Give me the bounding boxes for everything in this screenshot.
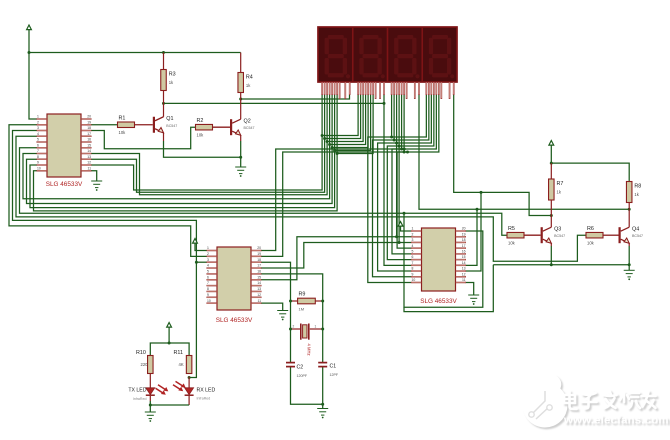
wire: Q1 emitter down — [163, 133, 165, 141]
junction R4 bottom — [239, 98, 242, 101]
wire: IC3 pin11 to ground — [466, 282, 474, 295]
junction R7 bottom / Q3 collector — [550, 214, 553, 217]
svg-text:10k: 10k — [197, 132, 205, 137]
junction Q3 emitter rail — [550, 263, 553, 266]
wire: +V to R7 R8 tops — [551, 145, 629, 181]
resistor R3 — [161, 70, 167, 91]
svg-text:12: 12 — [257, 293, 261, 297]
power arrow +V (top left) — [27, 25, 32, 30]
wire: R4 top lead — [240, 53, 242, 73]
capacitor C1 — [318, 363, 327, 367]
svg-text:5: 5 — [412, 249, 414, 253]
svg-text:SLG 46533V: SLG 46533V — [216, 317, 253, 324]
ground LEDs — [145, 412, 156, 419]
wire: IC1 pin19 to R1 — [92, 124, 118, 126]
display pins — [322, 82, 454, 99]
svg-text:8: 8 — [207, 287, 209, 291]
wire: LED supply rail — [150, 343, 189, 356]
svg-text:R10: R10 — [136, 350, 146, 356]
wire: segment net b digit 4 — [394, 95, 429, 140]
wire: IC2 pin20 to net e (bus) — [261, 149, 405, 251]
wire: IC2 pin19 to net f (bus) — [261, 152, 408, 256]
svg-text:3: 3 — [412, 238, 414, 242]
svg-text:4: 4 — [37, 132, 39, 136]
wire: IC2 pin17 to IC3 pin3 — [261, 243, 412, 269]
crystal X1 4MHz — [291, 328, 301, 330]
svg-text:7: 7 — [37, 149, 39, 153]
svg-text:10: 10 — [37, 166, 41, 170]
svg-text:TX LED: TX LED — [128, 388, 146, 394]
junction segment net a — [321, 134, 324, 137]
svg-text:1: 1 — [207, 246, 209, 250]
wire: segment net d digits 3-4 to IC3 — [387, 95, 411, 260]
transistor Q1 — [153, 117, 164, 133]
wire: IC1 pin18 to R2 — [92, 127, 196, 149]
resistor R7 — [549, 179, 555, 200]
svg-text:11: 11 — [257, 299, 261, 303]
wire: +V rail to R3/R4 tops — [29, 52, 241, 54]
svg-text:R9: R9 — [299, 292, 306, 298]
svg-text:R6: R6 — [587, 226, 594, 232]
svg-text:5: 5 — [207, 270, 209, 274]
wire: segment net f digit 4 — [404, 95, 439, 152]
wire: power arrow to LED rail — [168, 327, 170, 343]
wire: segment net g to digit 2 — [337, 95, 373, 154]
svg-text:1: 1 — [37, 115, 39, 119]
transistor Q2 — [230, 119, 241, 135]
resistor R2 — [196, 124, 213, 130]
junction ground rail xtal — [321, 403, 324, 406]
svg-text:8: 8 — [412, 267, 414, 271]
resistor R4 — [238, 73, 244, 93]
wire: Q4 emitter to ground — [628, 243, 630, 246]
svg-text:2: 2 — [37, 120, 39, 124]
wire: segment net c digits 1-2 from IC1 pin14 — [92, 95, 328, 195]
svg-text:15: 15 — [257, 275, 261, 279]
wire: segment net c digits 3-4 to IC3 — [378, 95, 411, 271]
capacitor C2 — [286, 363, 295, 367]
wire: ground stem — [322, 404, 324, 408]
svg-text:20: 20 — [257, 246, 261, 250]
wire: R3 bottom / Q1 collector — [163, 91, 165, 117]
wire: segment net e digits 3-4 to IC3 — [392, 95, 411, 254]
svg-text:5: 5 — [37, 138, 39, 142]
svg-text:2: 2 — [293, 325, 295, 329]
wire: power to IC2 pin1 — [195, 243, 207, 250]
junction Q4 emitter ground — [628, 263, 631, 266]
svg-text:1M: 1M — [299, 307, 305, 312]
svg-text:6: 6 — [412, 255, 414, 259]
svg-text:8: 8 — [37, 155, 39, 159]
wire: IC1 pin11 to ground — [92, 171, 97, 181]
svg-text:R2: R2 — [197, 118, 204, 124]
IC U2 (SLG 46533V) — [217, 247, 251, 310]
wire: segment net d digit 4 — [399, 95, 434, 146]
resistor R9 — [298, 298, 316, 304]
junction R3 top — [162, 51, 165, 54]
wire: segment net b digits 1-2 from IC1 pin13 — [92, 95, 325, 192]
ground IC1 — [91, 181, 102, 188]
svg-text:Q2: Q2 — [244, 118, 251, 124]
wire: segment net f digits 1-2 from IC1 pin9 — [30, 95, 335, 208]
svg-text:4: 4 — [207, 264, 209, 268]
svg-text:10k: 10k — [119, 130, 127, 135]
wire: segment net e digit 4 — [402, 95, 437, 149]
wire: Q4 collector — [628, 209, 630, 227]
wire: IC2 pin3 stub — [196, 261, 206, 263]
wire: IC2 pin11 to ground — [261, 303, 283, 310]
svg-text:R1: R1 — [119, 116, 126, 122]
wire: segment net c digit 4 — [397, 95, 432, 143]
wire: C2 bottom to ground rail — [291, 367, 323, 405]
svg-text:C2: C2 — [297, 365, 304, 371]
svg-text:R7: R7 — [557, 181, 564, 187]
wire: TX LED cathode to ground — [149, 396, 151, 401]
svg-text:120PF: 120PF — [297, 374, 308, 378]
wire: R7 leads — [550, 163, 552, 179]
wire: C1 bottom to ground rail — [322, 367, 324, 405]
wire: digit2 anode from R3/Q1 collector (long vertical to IC3 pin7) — [164, 102, 385, 104]
junction emitter rail — [239, 156, 242, 159]
svg-text:17: 17 — [87, 132, 91, 136]
LED RX (InfraRed photodiode) — [185, 388, 194, 395]
wire: net c continuation down to IC3 pin2 line — [396, 143, 398, 237]
junction R8 bottom / Q4 collector — [628, 208, 631, 211]
7-segment display DS1 (4 digit) — [318, 27, 457, 82]
wire: segment net a digits 1-2 from IC1 pin12 — [92, 95, 323, 190]
svg-text:11: 11 — [87, 166, 91, 170]
svg-text:BC547: BC547 — [554, 234, 565, 238]
junction LED rail — [168, 342, 171, 345]
svg-text:16: 16 — [87, 138, 91, 142]
svg-text:10: 10 — [207, 299, 211, 303]
resistor R5 — [507, 232, 524, 238]
junction segment net c — [326, 140, 329, 143]
wire: IC3 pin14 to digit3 anode line — [466, 209, 478, 265]
svg-text:13: 13 — [87, 155, 91, 159]
LED TX (InfraRed) — [146, 388, 155, 395]
junction R3 bottom / Q1 collector — [162, 102, 165, 105]
wire: box around IC3 (pin20 net) — [404, 213, 483, 307]
junction segment net b digit3 — [393, 139, 396, 142]
resistor R6 — [586, 232, 603, 238]
junction box to strobe line — [403, 212, 406, 215]
svg-text:1: 1 — [315, 325, 317, 329]
svg-text:15: 15 — [87, 143, 91, 147]
ground IC2 — [277, 311, 288, 318]
wire: segment net d digits 1-2 from IC1 pin7 — [23, 95, 330, 199]
wire: emitter ground rail — [493, 264, 629, 266]
wire: Q3 collector — [550, 216, 552, 228]
wire: Q3 emitter to ground rail — [550, 243, 552, 246]
wire: R6 to Q4 base — [603, 234, 619, 236]
wire: IC3 pin13 to digit4 anode line — [466, 192, 482, 271]
wire: power arrow to IC1 pin 1 — [29, 30, 37, 119]
svg-text:R4: R4 — [246, 75, 253, 81]
wire: R2 to Q2 base — [213, 126, 230, 128]
wire: segment net f to digit 2 — [335, 95, 371, 151]
svg-text:9: 9 — [207, 293, 209, 297]
junction segment net c digit3 — [395, 142, 398, 145]
wire: segment net g digits 1-2 from IC1 pin10 — [34, 95, 338, 211]
wire: segment net e to digit 2 — [332, 95, 368, 148]
wire: segment net a digits 3-4 to IC3 — [368, 95, 411, 282]
wire: RX LED cathode to LED ground rail — [188, 396, 190, 405]
svg-text:BC547: BC547 — [244, 126, 255, 130]
wire: segment net d to digit 2 — [330, 95, 366, 145]
svg-text:BC547: BC547 — [166, 124, 177, 128]
junction segment net b — [323, 137, 326, 140]
wire: net d continuation down to IC3 pin3 line — [398, 146, 400, 243]
power arrow +V (IC2) — [193, 239, 198, 244]
wire: digit3 anode to R8/Q4 collector — [419, 95, 629, 209]
svg-text:16: 16 — [462, 249, 466, 253]
svg-text:R8: R8 — [634, 184, 641, 190]
svg-text:12: 12 — [462, 272, 466, 276]
wire: digit4 anode to R7/Q3 collector — [454, 95, 552, 216]
wire: IC2 pin18 to crystal left node — [261, 262, 291, 362]
svg-text:19: 19 — [462, 232, 466, 236]
svg-text:R11: R11 — [174, 350, 184, 356]
power arrow +V (LED rail) — [167, 323, 172, 328]
svg-text:4: 4 — [412, 244, 414, 248]
junction segment net a digit3 — [390, 136, 393, 139]
junction segment net e — [331, 146, 334, 149]
junction segment net d — [328, 143, 331, 146]
svg-text:18: 18 — [462, 238, 466, 242]
junction LED ground — [149, 404, 152, 407]
wire: segment net a digit 4 — [392, 95, 427, 137]
ground Q1/Q2 emitters — [235, 167, 246, 174]
svg-text:Q3: Q3 — [554, 226, 561, 232]
svg-text:10k: 10k — [508, 240, 516, 245]
svg-text:9: 9 — [37, 161, 39, 165]
wire: IC1 pin4 to R6 (digit strobe) — [16, 136, 586, 261]
wire: IC2 pin15 to IC3 pin2 — [261, 237, 412, 280]
svg-text:Q1: Q1 — [166, 116, 173, 122]
wire: segment net b digits 3-4 to IC3 — [373, 95, 412, 277]
wire: segment net a to digit 2 — [322, 95, 358, 136]
wire: R8 bottom lead — [628, 203, 630, 210]
svg-text:10k: 10k — [587, 240, 595, 245]
svg-text:9: 9 — [412, 272, 414, 276]
svg-text:220: 220 — [141, 362, 149, 367]
junction segment net e digit3 — [400, 148, 403, 151]
resistor R8 — [626, 182, 632, 203]
svg-text:Q4: Q4 — [632, 226, 639, 232]
IC U1 (SLG 46533V) — [47, 114, 81, 177]
watermark elecfans logo — [523, 375, 568, 428]
svg-text:19: 19 — [87, 120, 91, 124]
svg-text:6: 6 — [37, 143, 39, 147]
junction IC2 pin3 — [195, 261, 198, 264]
junction segment net g — [336, 152, 339, 155]
wire: R11 to RX LED — [188, 377, 190, 388]
svg-text:14: 14 — [87, 149, 91, 153]
wire: IC1 pin2 to IC2 pin2 — [9, 125, 207, 257]
wire: power to IC3 pin1 — [401, 226, 412, 231]
junction segment net f — [333, 149, 336, 152]
svg-text:C1: C1 — [330, 364, 337, 370]
svg-text:13: 13 — [462, 267, 466, 271]
wire: Q2 emitter to ground — [240, 135, 242, 141]
svg-text:www.elecfans.com: www.elecfans.com — [563, 415, 669, 427]
wire: R10 to TX LED — [149, 374, 151, 388]
svg-text:3: 3 — [207, 258, 209, 262]
svg-text:BC547: BC547 — [632, 234, 643, 238]
transistor Q3 — [541, 227, 552, 243]
svg-text:20: 20 — [87, 115, 91, 119]
junction segment net d digit3 — [398, 145, 401, 148]
svg-text:11: 11 — [462, 278, 466, 282]
svg-text:15: 15 — [462, 255, 466, 259]
svg-text:10: 10 — [412, 278, 416, 282]
wire: segment net f digits 3-4 to IC3 — [397, 95, 411, 248]
svg-text:7: 7 — [412, 261, 414, 265]
svg-text:InfraRed: InfraRed — [197, 397, 211, 401]
wire: digit1 anode from R4/Q2 collector — [241, 95, 350, 99]
junction segment net f digit3 — [403, 151, 406, 154]
svg-text:7: 7 — [207, 281, 209, 285]
svg-text:SLG 46533V: SLG 46533V — [46, 181, 83, 188]
wire: IC1 pin6 to R5 (digit strobe) — [20, 148, 508, 235]
resistor R1 — [118, 122, 135, 128]
ground IC3 — [468, 295, 479, 302]
power arrow +V (IC3) — [398, 222, 403, 227]
junction RX LED anode — [188, 376, 191, 379]
junction digit2 anode — [383, 102, 386, 105]
svg-text:14: 14 — [257, 281, 261, 285]
svg-text:4K: 4K — [179, 362, 184, 367]
svg-text:17: 17 — [257, 264, 261, 268]
wire: R3 top lead — [163, 53, 165, 70]
svg-text:2: 2 — [207, 252, 209, 256]
svg-text:3: 3 — [37, 126, 39, 130]
svg-text:1: 1 — [412, 227, 414, 231]
svg-text:18: 18 — [87, 126, 91, 130]
svg-text:2: 2 — [412, 232, 414, 236]
power arrow +V (right) — [549, 141, 554, 146]
wire: IC1 pin3 to IC2 pin3 (long vertical) — [13, 131, 197, 378]
svg-text:SLG 46533V: SLG 46533V — [420, 298, 457, 305]
wire: R5 to Q3 base — [524, 234, 541, 236]
svg-text:R5: R5 — [508, 226, 515, 232]
wire: IC2 pin16 to crystal right node — [261, 274, 323, 363]
svg-text:6: 6 — [207, 275, 209, 279]
wire: segment net c to digit 2 — [327, 95, 363, 142]
resistor R10 — [148, 356, 154, 374]
svg-text:12: 12 — [87, 161, 91, 165]
wire: segment net e digits 1-2 from IC1 pin8 — [27, 95, 333, 204]
wire: rail drop to lower run — [404, 265, 493, 312]
svg-text:R3: R3 — [169, 72, 176, 78]
junction pin13 riser — [480, 191, 483, 194]
transistor Q4 — [619, 227, 630, 243]
junction pin14 riser — [476, 208, 479, 211]
svg-text:4 MHz: 4 MHz — [307, 344, 312, 356]
svg-text:16: 16 — [257, 270, 261, 274]
ground crystal caps — [317, 409, 328, 416]
svg-text:18: 18 — [257, 258, 261, 262]
wire: segment net b to digit 2 — [325, 95, 361, 139]
ground Q3/Q4 — [624, 270, 635, 277]
svg-text:RX LED: RX LED — [197, 388, 216, 394]
svg-text:13: 13 — [257, 287, 261, 291]
wire: R1 to Q1 base — [135, 124, 153, 126]
svg-text:14: 14 — [462, 261, 466, 265]
resistor R11 — [186, 356, 192, 374]
wire: R4 bottom / Q2 collector — [240, 93, 242, 120]
svg-text:InfraRed: InfraRed — [133, 397, 147, 401]
IC U3 (SLG 46533V) — [422, 228, 456, 291]
watermark chinese title (stylized strokes) — [564, 391, 656, 409]
svg-text:17: 17 — [462, 244, 466, 248]
svg-text:12PF: 12PF — [330, 373, 339, 377]
svg-text:19: 19 — [257, 252, 261, 256]
svg-text:20: 20 — [462, 227, 466, 231]
